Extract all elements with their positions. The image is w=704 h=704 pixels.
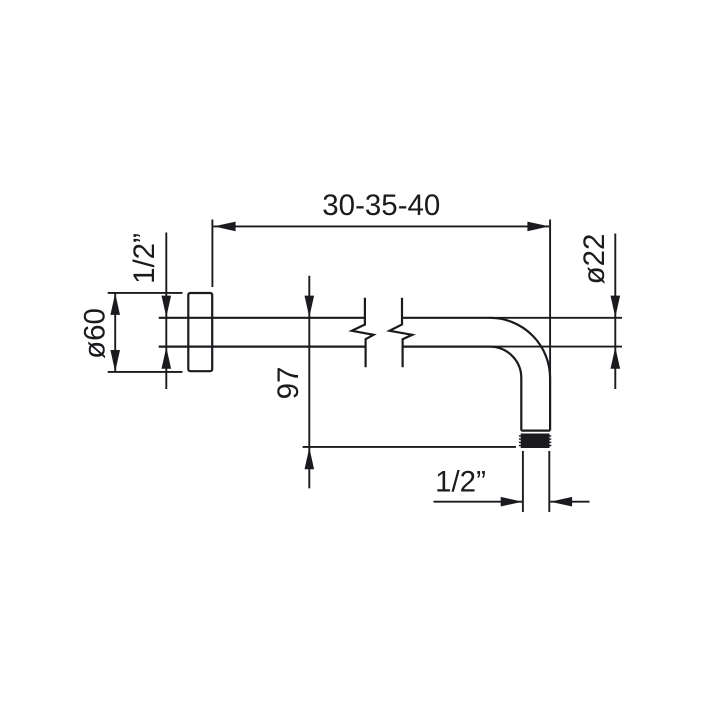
svg-text:1/2”: 1/2” [128, 233, 161, 284]
dim d60 dimension line [114, 293, 116, 372]
dim 30-35-40 left extension line [211, 220, 213, 288]
dim 97 up arrowhead [305, 448, 315, 470]
dim d22 dimension line [614, 234, 616, 390]
dim 1/2 inch wall thread dimension line [165, 233, 167, 390]
dim 97 bottom extension line [303, 446, 516, 448]
dim d60 bottom arrowhead [110, 350, 120, 372]
pipe end cap line [521, 430, 550, 432]
dim d22 down arrowhead [611, 296, 621, 318]
svg-text:ø22: ø22 [578, 234, 611, 285]
thread ridges right [549, 435, 551, 446]
dim 1/2 inch outlet left lead line [434, 501, 523, 503]
dim 30-35-40 left arrowhead [214, 222, 236, 232]
pipe bottom line (left of break) [159, 346, 366, 348]
svg-text:1/2”: 1/2” [435, 466, 486, 499]
dim d22 bottom extension line [490, 346, 622, 348]
dim 1/2 inch outlet right extension line [548, 451, 550, 512]
dim 97 down arrowhead [305, 296, 315, 318]
dim 30-35-40 right arrowhead [527, 222, 549, 232]
dim d60 bottom tick [108, 371, 183, 373]
pipe top line and outer elbow [402, 318, 550, 431]
dim d60 top arrowhead [110, 293, 120, 315]
dim 1/2 inch wall up arrowhead [162, 347, 172, 369]
dim 1/2 inch outlet left extension line [522, 451, 524, 512]
thread ridges left [519, 435, 521, 446]
dim 1/2 inch outlet left-pointing arrowhead [550, 497, 572, 507]
thread band [521, 434, 550, 449]
dim d22 top extension line [490, 317, 622, 319]
dim d22 up arrowhead [611, 347, 621, 369]
svg-text:ø60: ø60 [79, 308, 112, 359]
wall flange [188, 293, 212, 371]
dim 97 dimension line [308, 276, 310, 489]
svg-text:97: 97 [272, 367, 305, 400]
dim 1/2 inch outlet right lead line [550, 501, 589, 503]
pipe bottom line and inner elbow [403, 347, 522, 431]
dim 30-35-40 dimension line [214, 225, 550, 227]
break line 1 [352, 298, 374, 368]
dim d60 top tick [108, 292, 183, 294]
svg-text:30-35-40: 30-35-40 [322, 189, 440, 222]
pipe top line (left of break) [159, 317, 365, 319]
dim 1/2 inch wall down arrowhead [162, 296, 172, 318]
dim 1/2 inch outlet right-pointing arrowhead [501, 497, 523, 507]
break line 2 [390, 298, 413, 368]
dim 30-35-40 right extension line [549, 220, 551, 379]
